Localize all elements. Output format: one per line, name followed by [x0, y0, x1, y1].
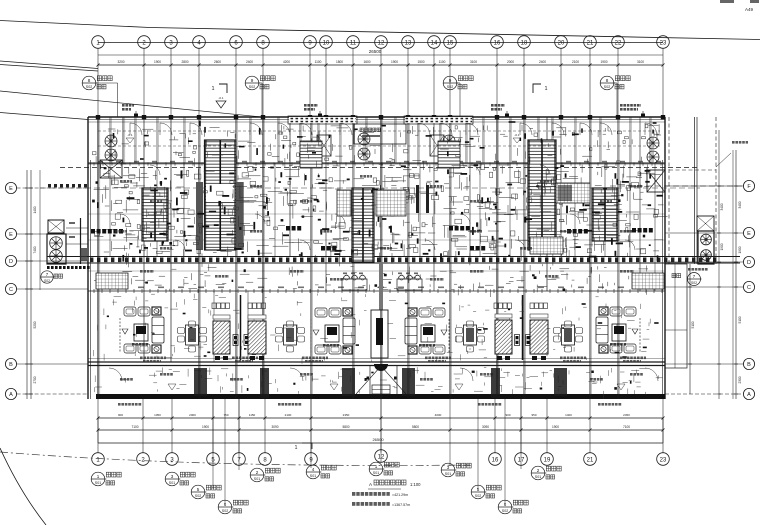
svg-text:A: A [747, 392, 751, 398]
svg-text:=1367.57m: =1367.57m [392, 503, 410, 507]
svg-text:S02: S02 [447, 85, 453, 89]
wardrobe row 2 [286, 226, 290, 231]
svg-text:B: B [747, 362, 751, 368]
right annex lower rooms [665, 264, 687, 368]
svg-text:2000: 2000 [189, 413, 196, 417]
svg-text:900: 900 [505, 413, 510, 417]
svg-text:S01: S01 [535, 475, 541, 479]
svg-text:C: C [9, 287, 13, 293]
wardrobe row 6 [470, 246, 474, 251]
bathroom tile block 2 [530, 237, 563, 254]
left annex flue box [48, 220, 64, 233]
grid bubble E left y188 [5, 182, 16, 193]
site boundary line 2a [0, 61, 98, 69]
living band clutter [103, 354, 105, 361]
staircase 4 [142, 188, 168, 241]
svg-text:900: 900 [118, 413, 123, 417]
svg-text:D: D [747, 260, 751, 266]
left annex tick row [47, 266, 50, 269]
svg-text:23: 23 [660, 40, 667, 46]
wardrobe row 3 [321, 246, 325, 251]
svg-text:-0.1: -0.1 [127, 133, 133, 137]
svg-text:12: 12 [378, 40, 385, 46]
grid bubble 1 top [92, 36, 105, 49]
building left wall [87, 117, 89, 399]
building top wall [88, 116, 665, 118]
AC fan symbols [105, 135, 117, 147]
grid bubble 16 bottom [489, 453, 502, 466]
svg-text:2600: 2600 [214, 60, 221, 64]
left vertical dimension line [26, 170, 28, 399]
svg-text:S02: S02 [604, 85, 610, 89]
grid bubble 3 top [165, 36, 178, 49]
svg-text:2100: 2100 [572, 60, 579, 64]
right annex dashed yard [668, 117, 670, 264]
svg-text:S02: S02 [502, 509, 508, 513]
grid bubble 15 top [444, 36, 457, 49]
grid bubble C left y289 [5, 283, 16, 294]
canopy dotted box left [288, 116, 357, 124]
left gap marks [69, 222, 75, 224]
svg-text:3: 3 [447, 465, 450, 470]
svg-text:S01: S01 [310, 474, 316, 478]
tiny shaft stacks [233, 335, 238, 346]
svg-text:1900: 1900 [738, 246, 742, 253]
grid bubble 2 top [138, 36, 151, 49]
svg-text:1900: 1900 [600, 60, 607, 64]
svg-text:B: B [9, 362, 13, 368]
svg-text:3400: 3400 [738, 201, 742, 208]
top dimension line with values [98, 64, 663, 66]
svg-text:20: 20 [558, 40, 565, 46]
svg-text:S01: S01 [169, 481, 175, 485]
svg-text:S01: S01 [373, 471, 379, 475]
svg-text:1800: 1800 [336, 60, 343, 64]
svg-text:1900: 1900 [202, 425, 209, 429]
bottom callout 1/S01 #1 [91, 472, 105, 486]
window boxes above shafts [212, 303, 216, 309]
sofa cluster 3 [433, 308, 445, 317]
grid bubble 18 top [518, 36, 531, 49]
grid bubble A right y394 [743, 388, 754, 399]
svg-text:18: 18 [521, 40, 528, 46]
svg-text:3: 3 [171, 474, 174, 479]
svg-text:8: 8 [606, 78, 609, 83]
grid bubble D left y261 [5, 255, 16, 266]
svg-text:4000: 4000 [435, 413, 442, 417]
mid band line 2 [88, 239, 665, 241]
grid bubble 11 top [347, 36, 360, 49]
svg-text:2400: 2400 [246, 60, 253, 64]
grid bubble B right y364 [743, 358, 754, 369]
svg-text:9: 9 [251, 78, 254, 83]
svg-text:1: 1 [295, 445, 298, 451]
stair flank poche right [237, 182, 244, 250]
dining table 3 [464, 325, 477, 345]
svg-text:3400: 3400 [720, 203, 724, 210]
svg-text:5100: 5100 [691, 321, 695, 328]
svg-text:26500: 26500 [369, 49, 382, 54]
staircase 3 [528, 140, 556, 250]
entrance steps left [300, 141, 322, 168]
central shaft [371, 310, 388, 358]
dark stair block bottom 4 [554, 368, 567, 396]
svg-text:1150: 1150 [249, 413, 256, 417]
svg-text:1400: 1400 [33, 206, 37, 213]
svg-text:2300: 2300 [738, 376, 742, 383]
svg-text:1400: 1400 [565, 413, 572, 417]
svg-text:-0.1: -0.1 [514, 133, 520, 137]
dark stair block bottom 1 [194, 368, 207, 396]
svg-text:4200: 4200 [283, 60, 290, 64]
svg-text:S01: S01 [254, 477, 260, 481]
svg-text:2350: 2350 [343, 413, 350, 417]
area note 1 [352, 492, 355, 496]
svg-text:3100: 3100 [470, 60, 477, 64]
callout 9/S02 a [245, 76, 259, 90]
right dim vertical 719 [718, 130, 720, 399]
grid bubble 9 bottom [305, 453, 318, 466]
kitchen tile block right of central stair [376, 190, 406, 216]
columns on top wall [96, 115, 100, 119]
svg-text:1600: 1600 [363, 60, 370, 64]
bottom callout 2/S01 #11 [531, 466, 545, 480]
right annex label [688, 268, 691, 271]
svg-text:1500: 1500 [417, 60, 424, 64]
svg-text:1: 1 [211, 86, 214, 92]
grid bubble C right y287 [743, 281, 754, 292]
bottom callout 3/S01 #2 [165, 472, 179, 486]
sofa cluster 1 [124, 307, 136, 316]
svg-text:2000: 2000 [507, 60, 514, 64]
grid bubble 16 top [491, 36, 504, 49]
grid bubble 2 bottom [137, 453, 150, 466]
svg-text:17: 17 [518, 457, 525, 463]
bottom rooms clutter [371, 372, 373, 374]
tile block left [96, 273, 128, 289]
bottom overall dim line [98, 442, 663, 444]
vent label 4 [620, 104, 623, 107]
corridor benches and labels [140, 270, 143, 273]
svg-text:1900: 1900 [154, 60, 161, 64]
top overall dim line [98, 54, 663, 56]
interior vertical walls [97, 117, 99, 399]
staircase 5 [592, 188, 618, 241]
svg-text:2100: 2100 [285, 413, 292, 417]
grid bubble 23 top [657, 36, 670, 49]
site boundary line 4 [0, 113, 88, 120]
grid bubble 12 top [375, 36, 388, 49]
entrance side marks [367, 377, 370, 380]
corridor line [88, 270, 665, 272]
svg-text:3090: 3090 [271, 425, 278, 429]
svg-text:1:100: 1:100 [410, 482, 421, 487]
grid bubble 4 top [193, 36, 206, 49]
mid band line 1 [88, 213, 665, 215]
grid bubble 21 top [584, 36, 597, 49]
grid bubble 6 top [230, 36, 243, 49]
svg-text:C: C [747, 285, 751, 291]
svg-text:4: 4 [312, 467, 315, 472]
grid bubble E right y233 [743, 227, 754, 238]
svg-text:E: E [747, 231, 751, 237]
dark stair block bottom 2 [342, 368, 355, 396]
wardrobe row 1 [91, 229, 95, 234]
labels under building [118, 403, 121, 406]
middle band labels [120, 180, 123, 183]
main entrance step box [372, 385, 390, 394]
grid bubble 12 bottom [375, 450, 388, 463]
callout 8/S02 left [82, 76, 96, 90]
kitchen tile block left of central stair [337, 190, 351, 216]
hatched shaft 3 [495, 320, 512, 354]
building right wall [664, 117, 666, 399]
sofa cluster 4 [624, 307, 636, 316]
labels above B line [140, 357, 143, 360]
balcony dashed line 2 [98, 145, 660, 147]
svg-text:1: 1 [544, 86, 547, 92]
shaft party wall right pair [522, 295, 524, 360]
svg-text:1900: 1900 [552, 425, 559, 429]
svg-text:950: 950 [531, 413, 536, 417]
svg-text:8: 8 [88, 78, 91, 83]
left annex stem [39, 170, 41, 290]
grid bubble 23 bottom [657, 453, 670, 466]
svg-text:1900: 1900 [720, 243, 724, 250]
middle band door arcs [120, 214, 130, 224]
left annex AC platform [47, 234, 66, 264]
left gap wall [80, 218, 82, 264]
svg-text:S02: S02 [249, 85, 255, 89]
site boundary line 2b [0, 65, 98, 72]
main entrance doors [374, 364, 381, 371]
axis E dashed line [40, 187, 700, 189]
axis C tiny dims [98, 287, 104, 289]
top band bottom wall [88, 162, 665, 164]
right annex solid walls [694, 117, 696, 264]
hatched shaft 2 [248, 321, 266, 354]
wardrobe row 7 [632, 228, 636, 233]
balcony dashed line 1 [98, 130, 660, 132]
grid bubble 8 top [257, 36, 270, 49]
axis C tick line [88, 290, 665, 292]
svg-text:S01: S01 [445, 472, 451, 476]
dark stair block bottom small 1 [260, 368, 269, 398]
middle band room clutter [275, 178, 277, 182]
sill line above B [88, 358, 665, 360]
svg-text:S02: S02 [44, 279, 50, 283]
site dash-dot line [0, 452, 470, 465]
wardrobe row 4 [567, 229, 571, 234]
bottom dim line 1 [98, 417, 663, 419]
band D hatching [90, 258, 93, 263]
svg-text:19: 19 [544, 457, 551, 463]
wall poche bars [579, 209, 587, 211]
dark stair block bottom small 2 [491, 368, 500, 398]
callout 7/S02 left [41, 271, 53, 283]
bottom callout 1/S01 #7 [369, 462, 383, 476]
svg-text:7400: 7400 [33, 246, 37, 253]
svg-text:D: D [9, 259, 13, 265]
right plain vertical 733 [732, 150, 734, 399]
right vertical dimension line [735, 150, 737, 399]
svg-text:22: 22 [615, 40, 622, 46]
svg-text:-0.1: -0.1 [218, 96, 224, 100]
vent label 3 [491, 104, 494, 107]
grid stems to bottom bubbles [97, 399, 99, 453]
canopy dotted box right [404, 116, 473, 124]
svg-text:16: 16 [494, 40, 501, 46]
svg-text:S01: S01 [95, 481, 101, 485]
dark stair block bottom 3 [402, 368, 415, 396]
svg-text:13: 13 [405, 40, 412, 46]
svg-text:S02: S02 [195, 494, 201, 498]
svg-text:21: 21 [587, 40, 594, 46]
svg-text:26500: 26500 [372, 437, 384, 442]
svg-text:1100: 1100 [439, 60, 446, 64]
svg-text:1900: 1900 [391, 60, 398, 64]
callout 8/S02 right [600, 76, 614, 90]
top band clutter [279, 132, 283, 134]
bottom callout 2/S01 #3 [250, 468, 264, 482]
bottom callout 6/S02 #10 [498, 500, 512, 514]
svg-text:21: 21 [587, 457, 594, 463]
dining table 1 [186, 325, 199, 345]
hatched shaft 1 [213, 321, 230, 354]
grid bubble 1 bottom [92, 453, 105, 466]
svg-text:5: 5 [197, 487, 200, 492]
vent label 2 [304, 104, 307, 107]
svg-text:9: 9 [449, 78, 452, 83]
svg-text:12: 12 [378, 454, 385, 460]
callout 9/S02 b [443, 76, 457, 90]
grid bubble 17 bottom [515, 453, 528, 466]
shaft party wall left pair [240, 295, 242, 360]
top rooms sill line [88, 121, 665, 123]
grid bubble 3 bottom [166, 453, 179, 466]
svg-text:2400: 2400 [539, 60, 546, 64]
band D upper line [47, 256, 740, 258]
band D lower line [47, 262, 740, 264]
svg-text:1050: 1050 [154, 413, 161, 417]
svg-text:S02: S02 [86, 85, 92, 89]
svg-text:2: 2 [256, 470, 259, 475]
svg-text:2: 2 [537, 468, 540, 473]
svg-text:5800: 5800 [342, 425, 349, 429]
callout 7/S02 right [688, 273, 701, 286]
grid bubble 10 top [320, 36, 333, 49]
duct poche bars [416, 185, 419, 213]
svg-text:1: 1 [97, 474, 100, 479]
axis F line segment [610, 185, 743, 187]
grid bubble 14 top [428, 36, 441, 49]
svg-text:11: 11 [350, 40, 357, 46]
svg-text:2450: 2450 [623, 413, 630, 417]
left E dash bar [48, 184, 51, 187]
svg-text:15: 15 [447, 40, 454, 46]
svg-text:2700: 2700 [33, 376, 37, 383]
grid bubble 21 bottom [584, 453, 597, 466]
bottom callout 5/S02 #4 [191, 485, 205, 499]
central party wall gray [379, 262, 383, 310]
svg-text:7100: 7100 [131, 425, 138, 429]
staircase 2 [352, 188, 374, 262]
tile block right [632, 273, 664, 289]
svg-text:23: 23 [660, 457, 667, 463]
dining table 2 [284, 325, 297, 345]
bottom callout 4/S01 #6 [306, 465, 320, 479]
center porch box [354, 124, 406, 144]
grid bubble E left y234 [5, 228, 16, 239]
top grid axis line [98, 42, 663, 44]
wardrobe row 5 [449, 226, 453, 231]
grid bubble 9 top [304, 36, 317, 49]
band B wall [88, 361, 665, 363]
grid bubble 20 top [555, 36, 568, 49]
svg-text:5800: 5800 [412, 425, 419, 429]
right annex X box [697, 216, 714, 231]
top band door arcs [130, 123, 142, 135]
svg-text:A49: A49 [745, 7, 754, 12]
svg-text:E: E [9, 186, 13, 192]
svg-text:E: E [9, 232, 13, 238]
svg-text:10: 10 [323, 40, 330, 46]
area note 2 [352, 502, 355, 506]
svg-text:750: 750 [223, 413, 228, 417]
svg-text:5100: 5100 [738, 316, 742, 323]
site boundary line upper [0, 21, 150, 28]
grid bubble 5 bottom [207, 453, 220, 466]
svg-text:3200: 3200 [117, 60, 124, 64]
bottom callout 3/S01 #8 [441, 463, 455, 477]
svg-text:1: 1 [375, 464, 378, 469]
svg-text:14: 14 [431, 40, 438, 46]
site boundary line 3 [0, 91, 262, 117]
grid bubble D right y262 [743, 256, 754, 267]
grid bubble F right y186 [743, 180, 754, 191]
flue X box right end [647, 170, 665, 192]
svg-text:A: A [9, 392, 13, 398]
bottom callout 6/S02 #5 [218, 500, 232, 514]
hatched shaft 4 [530, 320, 548, 354]
upper corridor dashed line [60, 167, 700, 169]
grid bubble 22 top [612, 36, 625, 49]
building bottom wall [96, 394, 665, 399]
right dim vertical 690 [689, 264, 691, 394]
svg-text:5200: 5200 [33, 321, 37, 328]
interior dim tick row [88, 163, 665, 165]
bottom dim line 2 [98, 429, 663, 431]
grid bubble 19 bottom [541, 453, 554, 466]
bathroom tile dark block [556, 183, 590, 203]
callout leader stems [212, 399, 214, 489]
bottom callout 5/S02 #9 [471, 485, 485, 499]
svg-text:2800: 2800 [181, 60, 188, 64]
svg-text:7100: 7100 [623, 425, 630, 429]
sofa cluster 2 [315, 308, 327, 317]
vent label 1 [122, 104, 125, 107]
grid bubble 8 bottom [259, 453, 272, 466]
bottom rooms details [109, 368, 122, 381]
flue X box b [430, 135, 444, 156]
stair flank poche left [196, 182, 203, 250]
svg-text:S02: S02 [691, 281, 697, 285]
site arc bottom-left [0, 448, 46, 525]
right annex elevator shaft [698, 231, 714, 264]
svg-text:16: 16 [492, 457, 499, 463]
corridor band clutter [194, 284, 197, 286]
stair 1 landing gap [206, 184, 235, 201]
